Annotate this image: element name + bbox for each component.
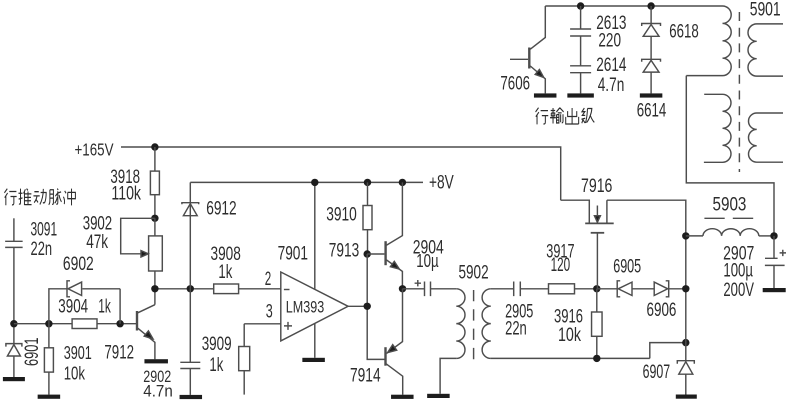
- diode D6902: [67, 281, 82, 297]
- svg-text:100µ: 100µ: [723, 261, 753, 282]
- wire 2902 bottom lead: [189, 369, 191, 395]
- wire 2904 to 5902: [431, 288, 457, 290]
- wire pin3 to 3909: [243, 324, 245, 347]
- svg-text:5903: 5903: [713, 195, 747, 216]
- label 6912: [206, 199, 237, 220]
- svg-text:10k: 10k: [64, 364, 86, 384]
- transformer T5902 core: [473, 290, 475, 360]
- svg-text:4.7n: 4.7n: [598, 75, 625, 96]
- label 2904: [413, 238, 444, 259]
- wire 2905 to 3917: [520, 288, 548, 290]
- wire 2613 top lead: [580, 6, 582, 29]
- label 5903: [713, 195, 747, 216]
- label 4.7n top: [598, 75, 625, 96]
- label 1k 3909: [209, 355, 223, 376]
- wire base bus vertical: [367, 254, 385, 359]
- label 100u: [723, 261, 753, 282]
- label +165V: [75, 140, 114, 160]
- wire pot top lead: [154, 218, 156, 236]
- wire opamp output: [348, 305, 367, 307]
- svg-text:1k: 1k: [218, 262, 232, 283]
- wire 5901 primary bottom lead: [686, 75, 722, 77]
- label 5902: [459, 263, 489, 284]
- svg-text:5902: 5902: [459, 263, 489, 284]
- svg-text:7606: 7606: [500, 74, 530, 95]
- node +8V / 3910: [364, 179, 371, 186]
- diode D6907: [677, 361, 694, 375]
- wire 6902 branch left: [49, 289, 67, 324]
- node +8V / 7913 collector: [399, 179, 406, 186]
- label + of 2907: [780, 250, 786, 256]
- label 6905: [613, 257, 641, 278]
- label 3901: [64, 343, 92, 363]
- wire 6902 branch right: [82, 289, 120, 324]
- wire mosfet drain lead: [607, 200, 686, 361]
- label 6906: [647, 300, 677, 321]
- node top rail / D6618: [647, 2, 654, 9]
- wire 2907 top lead: [773, 236, 775, 258]
- svg-text:110k: 110k: [111, 184, 141, 205]
- wire input stub: [13, 218, 15, 241]
- label 2905: [505, 301, 533, 322]
- wire pot wiper loop: [121, 218, 155, 254]
- label 2613: [596, 13, 626, 34]
- svg-text:3091: 3091: [31, 220, 58, 241]
- svg-text:10µ: 10µ: [416, 251, 438, 271]
- label 7901: [278, 244, 308, 265]
- resistor R3917: [549, 284, 575, 294]
- label pin 2: [265, 269, 272, 290]
- arrow emitter 7912: [144, 331, 153, 339]
- label hang-shu-chu-ji (horizontal output stage): [536, 108, 595, 125]
- label 3904: [58, 297, 88, 318]
- capacitor C2902: [180, 362, 200, 368]
- label LM393: [286, 297, 324, 316]
- wire 3918 top lead: [154, 147, 156, 171]
- label +8V: [429, 172, 454, 193]
- node pot/7912 collector: [151, 285, 158, 292]
- capacitor C2904: [425, 282, 431, 297]
- transformer T5901 core: [738, 12, 740, 172]
- wire opamp ground stem: [314, 323, 316, 357]
- wire collector row: [155, 288, 281, 290]
- ground 6901: [3, 377, 25, 381]
- label 7606: [500, 74, 530, 95]
- resistor R3910: [363, 206, 372, 230]
- label 4.7n 2902: [143, 382, 173, 400]
- svg-text:7901: 7901: [278, 244, 308, 265]
- svg-text:7913: 7913: [329, 241, 359, 262]
- resistor R3908: [214, 284, 239, 294]
- inductor L5903: [703, 229, 759, 236]
- wire 3916 top lead: [596, 289, 598, 313]
- wire 6905-6906: [632, 288, 654, 290]
- wire opamp V+ supply: [314, 182, 316, 289]
- svg-text:6902: 6902: [63, 254, 94, 275]
- wire 5903 right lead: [759, 235, 774, 237]
- transformer T5901 primary lower winding: [704, 94, 731, 162]
- svg-text:5901: 5901: [750, 0, 781, 20]
- svg-text:+8V: +8V: [429, 172, 454, 193]
- resistor R3916: [592, 312, 603, 336]
- label 6618: [669, 22, 698, 43]
- svg-text:200V: 200V: [723, 280, 754, 301]
- label 2902: [143, 368, 171, 386]
- resistor R3918: [150, 171, 159, 195]
- transformer T5901 primary top winding: [723, 6, 732, 76]
- svg-text:1k: 1k: [209, 355, 223, 376]
- arrow pot wiper: [141, 251, 148, 257]
- label 3909: [202, 334, 232, 355]
- resistor R3901: [44, 348, 53, 372]
- inductor L5903 core bars: [704, 217, 753, 219]
- label 110k: [111, 184, 141, 205]
- ground 7914: [391, 395, 414, 399]
- wire top rail: [545, 5, 722, 7]
- resistor R3904: [72, 319, 97, 329]
- label 1k 3904: [98, 297, 111, 318]
- transformer T5902 secondary winding: [482, 289, 491, 359]
- svg-text:47k: 47k: [86, 232, 108, 253]
- svg-text:2: 2: [265, 269, 272, 290]
- wire 3901 top: [48, 324, 50, 348]
- wire 5902 sec bottom lead: [491, 357, 650, 359]
- mosfet Q7916: [561, 200, 614, 289]
- node drain/6906: [682, 285, 689, 292]
- label pin 3: [266, 302, 273, 323]
- wire 3918 bottom lead: [154, 195, 156, 219]
- svg-text:3901: 3901: [64, 343, 92, 363]
- ground 2907: [763, 288, 786, 292]
- wire +165V rail: [121, 147, 561, 200]
- svg-text:7912: 7912: [104, 343, 134, 364]
- svg-text:6905: 6905: [613, 257, 641, 278]
- wire 6618-6614: [650, 36, 652, 59]
- svg-text:7914: 7914: [350, 366, 381, 387]
- label 1k 3908: [218, 262, 232, 283]
- node +165V / R3918: [151, 143, 158, 150]
- label 6902: [63, 254, 94, 275]
- ground 2614: [567, 93, 594, 97]
- transformer T5902 primary winding: [456, 289, 465, 359]
- label hang-tui-dong-mai-chong (line drive pulse): [4, 189, 75, 206]
- node opamp out junction: [364, 303, 371, 310]
- diode D6618: [642, 24, 661, 37]
- wire base row: [14, 323, 136, 325]
- wire 5901 tap to B+ node: [686, 76, 774, 233]
- svg-text:6906: 6906: [647, 300, 677, 321]
- wire 6906 to node: [669, 288, 686, 290]
- svg-text:LM393: LM393: [286, 297, 324, 316]
- svg-text:3910: 3910: [326, 204, 357, 225]
- label 3916: [554, 306, 583, 327]
- wire 6912 lead: [189, 182, 191, 288]
- capacitor C2905: [514, 282, 521, 297]
- node source/3916: [593, 285, 600, 292]
- svg-text:3904: 3904: [58, 297, 88, 318]
- capacitor C3091: [5, 241, 23, 247]
- svg-text:1k: 1k: [98, 297, 111, 318]
- node input junction: [10, 320, 17, 327]
- wire 6907 bottom: [685, 374, 687, 394]
- svg-text:22n: 22n: [505, 318, 527, 339]
- label 5901: [750, 0, 781, 20]
- label 200V: [723, 280, 754, 301]
- node +8V / opamp: [311, 179, 318, 186]
- capacitor C2613: [570, 29, 591, 36]
- arrow emitter Q7606: [535, 70, 544, 78]
- wire 6618 top lead: [650, 6, 652, 24]
- label 6614: [637, 101, 667, 122]
- wire emitters to 2904: [403, 288, 425, 290]
- node 3918 / pot 3902: [151, 215, 158, 222]
- ground 7912 emitter: [144, 359, 168, 363]
- ground 6614: [640, 93, 663, 97]
- wire 3916 bottom lead: [596, 336, 598, 358]
- wire 3910 bottom lead: [367, 230, 369, 254]
- wire 3901 bottom: [48, 372, 50, 395]
- capacitor C2614: [570, 66, 591, 73]
- svg-text:+165V: +165V: [75, 140, 114, 160]
- label 120: [551, 255, 571, 276]
- label + of 2904: [415, 280, 421, 286]
- transistor Q7606: [510, 6, 545, 93]
- label 6907: [643, 362, 671, 383]
- wire 5902 primary bottom: [440, 358, 456, 393]
- label 2907: [723, 244, 754, 265]
- node emitters junction: [399, 285, 406, 292]
- wire 2614 bottom: [580, 73, 582, 94]
- label 7914: [350, 366, 381, 387]
- wire 2902 top lead: [189, 289, 191, 363]
- wire pot bottom lead: [154, 271, 156, 305]
- svg-text:6614: 6614: [637, 101, 667, 122]
- wire 3091 to base row: [13, 247, 15, 343]
- label 10k 3916: [558, 325, 581, 346]
- wire 5903 left lead: [686, 235, 703, 237]
- svg-text:120: 120: [551, 255, 571, 276]
- label 7912: [104, 343, 134, 364]
- wire +8V rail: [190, 181, 423, 183]
- label 220: [598, 31, 621, 52]
- label 47k: [86, 232, 108, 253]
- arrow mosfet gate: [594, 216, 600, 223]
- svg-text:3: 3: [266, 302, 273, 323]
- svg-text:2614: 2614: [596, 55, 627, 76]
- svg-text:7916: 7916: [581, 176, 612, 197]
- ground 6907: [676, 395, 697, 399]
- label 3908: [211, 244, 241, 265]
- svg-text:6618: 6618: [669, 22, 698, 43]
- node 5903 right / B+: [770, 232, 777, 239]
- label 22n 2905: [505, 318, 527, 339]
- wire 6905 lead: [597, 288, 617, 290]
- label 7916: [581, 176, 612, 197]
- svg-text:6907: 6907: [643, 362, 671, 383]
- node 3916 bottom: [593, 355, 600, 362]
- ground opamp: [302, 358, 325, 362]
- label 10u: [416, 251, 438, 271]
- diode D6614: [642, 59, 661, 72]
- wire 2907 bottom lead: [773, 265, 775, 288]
- svg-text:10k: 10k: [558, 325, 581, 346]
- node 3901/6902 junction: [45, 320, 52, 327]
- label 2614: [596, 55, 627, 76]
- label 3910: [326, 204, 357, 225]
- label 7913: [329, 241, 359, 262]
- wire 3917 to node: [575, 288, 597, 290]
- label 3917: [546, 242, 574, 263]
- node 7913 base: [364, 250, 371, 257]
- svg-text:220: 220: [598, 31, 621, 52]
- svg-text:6912: 6912: [206, 199, 237, 220]
- diode D6906: [654, 281, 669, 297]
- svg-text:22n: 22n: [31, 239, 53, 260]
- diode D6905: [617, 281, 632, 297]
- ground 3901: [38, 395, 61, 399]
- label 22n left: [31, 239, 53, 260]
- wire 3910 top lead: [367, 182, 369, 205]
- wire 6614 bottom: [650, 72, 652, 93]
- potentiometer RP3902: [149, 236, 163, 271]
- transistor Q7914: [386, 289, 403, 395]
- ground 2902: [180, 395, 203, 399]
- diode D6901: [6, 344, 22, 356]
- wire 3909 stub: [243, 371, 245, 395]
- label 3091: [31, 220, 58, 241]
- transistor Q7913: [367, 182, 402, 288]
- arrow emitter 7913: [390, 261, 399, 269]
- svg-text:6901: 6901: [22, 338, 43, 367]
- wire 5902 sec top lead: [491, 288, 514, 290]
- label 3918: [110, 167, 140, 188]
- transistor Q7912: [137, 305, 155, 360]
- svg-text:3909: 3909: [202, 334, 232, 355]
- label 10k 3901: [64, 364, 86, 384]
- svg-text:4.7n: 4.7n: [143, 382, 173, 400]
- arrow emitter 7914 (PNP): [388, 345, 397, 353]
- label 3902: [83, 214, 113, 235]
- node top rail / C2613: [577, 2, 584, 9]
- node 6907 top: [682, 339, 689, 346]
- transformer T5901 secondary top winding: [748, 24, 783, 76]
- wire pin3 lead: [244, 323, 281, 325]
- capacitor C2907: [765, 258, 785, 265]
- wire 6901 bottom: [13, 356, 15, 377]
- node 5903 left: [682, 232, 689, 239]
- transformer T5901 secondary lower winding: [749, 113, 783, 162]
- op-amp U7901 LM393: [281, 272, 348, 341]
- label 6901 (vertical): [22, 338, 43, 367]
- node 6912/2902: [187, 285, 194, 292]
- ground 5902 primary: [427, 394, 450, 398]
- wire 2613-2614: [580, 36, 582, 66]
- diode D6912: [182, 203, 199, 216]
- ground 7606 emitter: [534, 93, 557, 97]
- node base junction: [116, 320, 123, 327]
- wire bottom jog: [650, 343, 686, 359]
- resistor R3909: [239, 347, 250, 371]
